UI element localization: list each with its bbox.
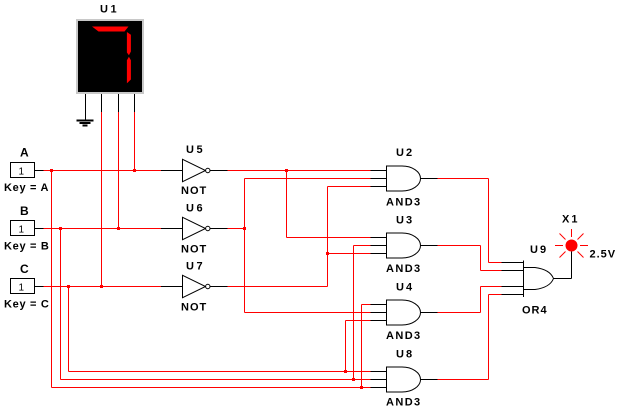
wire net B' vertical <box>244 179 246 313</box>
svg-text:U1: U1 <box>100 4 119 16</box>
junction net B / U3 branch <box>352 378 355 381</box>
junction net A / U4 branch <box>360 386 363 389</box>
wire net C' to U2 in3 <box>328 186 371 188</box>
display segment a (lit) <box>92 27 129 32</box>
wire net A horizontal to U5 <box>44 170 162 172</box>
svg-text:NOT: NOT <box>181 244 207 256</box>
svg-text:Key = C: Key = C <box>4 299 50 311</box>
svg-text:X1: X1 <box>562 214 579 226</box>
wire net C vertical to U4 in3 <box>345 321 347 372</box>
wire U2 out to OR in1 <box>438 179 502 263</box>
wire display pin3 to net B <box>118 112 120 229</box>
AND3 gate U2 <box>371 147 438 209</box>
svg-text:AND3: AND3 <box>386 397 422 409</box>
svg-text:Key = B: Key = B <box>4 241 50 253</box>
wire net A to U4 in1 <box>362 304 371 306</box>
display segment c (lit) <box>127 57 131 84</box>
wire net C' (U7 out) <box>228 286 328 288</box>
svg-text:U9: U9 <box>530 244 548 256</box>
junction net B down-branch <box>59 227 62 230</box>
svg-text:2.5V: 2.5V <box>590 249 617 261</box>
junction net C' branch <box>326 252 329 255</box>
wire net C horizontal to U7 <box>44 286 162 288</box>
svg-text:U6: U6 <box>186 203 205 215</box>
wire net C' to U3 in3 <box>328 253 371 255</box>
wire U4 out to OR in3 <box>438 287 502 313</box>
wire net C' vertical <box>327 187 329 287</box>
svg-text:NOT: NOT <box>181 302 207 314</box>
AND3 gate U4 <box>371 282 438 343</box>
wire U8 out to OR in4 <box>438 295 502 380</box>
svg-text:U3: U3 <box>396 215 414 227</box>
switch A (Key = A) <box>4 146 49 195</box>
junction net C / display <box>100 285 103 288</box>
junction net A down-branch <box>50 169 53 172</box>
wire net C bottom horizontal to U8 in1 <box>69 371 371 373</box>
wire net B vertical to U3 in2 <box>353 246 355 380</box>
svg-text:AND3: AND3 <box>386 197 422 209</box>
svg-text:1: 1 <box>19 225 25 236</box>
wire net A vertical to U4 in1 <box>361 305 363 388</box>
svg-text:B: B <box>20 204 29 218</box>
ground <box>77 121 94 126</box>
NOT gate U7 <box>161 261 228 314</box>
AND3 gate U3 <box>371 215 438 276</box>
wire U3 out to OR in2 <box>438 246 502 271</box>
wire net B' to U4 in2 <box>245 312 371 314</box>
svg-text:NOT: NOT <box>181 185 207 197</box>
svg-text:C: C <box>20 262 29 276</box>
wire net B horizontal to U6 <box>44 228 162 230</box>
wire net B vertical <box>60 229 62 380</box>
wire net A bottom horizontal to U8 in3 <box>52 387 371 389</box>
NOT gate U5 <box>161 144 228 197</box>
OR4 gate U9 <box>502 244 572 317</box>
wire net B bottom horizontal to U8 in2 <box>61 379 371 381</box>
svg-text:OR4: OR4 <box>522 305 548 317</box>
display pin 1 <box>85 94 87 121</box>
wire net B to U3 in2 <box>354 245 371 247</box>
svg-text:AND3: AND3 <box>386 263 422 275</box>
wire net B' (U6 out) <box>228 228 245 230</box>
svg-text:AND3: AND3 <box>386 330 422 342</box>
junction net A' branch <box>285 169 288 172</box>
svg-text:1: 1 <box>19 283 25 294</box>
display pin 3 <box>118 94 120 112</box>
svg-text:U7: U7 <box>186 261 205 273</box>
wire net C vertical <box>68 287 70 372</box>
7-segment display U1 <box>77 4 143 94</box>
svg-text:U8: U8 <box>396 349 414 361</box>
NOT gate U6 <box>161 203 228 256</box>
svg-text:A: A <box>20 146 29 160</box>
display pin 2 <box>101 94 103 112</box>
junction net B' branch <box>243 227 246 230</box>
display segment b (lit) <box>127 32 131 55</box>
switch C (Key = C) <box>4 262 50 311</box>
wire net A' (U5 out) to U2 in1 <box>228 170 371 172</box>
svg-text:Key = A: Key = A <box>4 182 49 194</box>
switch B (Key = B) <box>4 204 50 253</box>
wire display pin4 to net A <box>134 112 136 171</box>
junction net C / U4 branch <box>344 370 347 373</box>
display pin 4 <box>134 94 136 112</box>
wire net A vertical <box>51 171 53 388</box>
svg-text:U5: U5 <box>186 144 205 156</box>
wire net C to U4 in3 <box>346 320 371 322</box>
lamp X1 2.5V <box>555 214 616 261</box>
junction net C down-branch <box>67 285 70 288</box>
svg-text:U2: U2 <box>396 147 414 159</box>
wire net B' to U2 in2 <box>245 178 371 180</box>
svg-text:U4: U4 <box>396 282 414 294</box>
wire net A' vertical <box>286 171 288 238</box>
junction net B / display <box>117 227 120 230</box>
svg-text:1: 1 <box>19 167 25 178</box>
AND3 gate U8 <box>371 349 438 409</box>
wire display pin2 to net C <box>101 112 103 287</box>
junction net A / display <box>133 169 136 172</box>
wire net A' to U3 in1 <box>287 237 371 239</box>
